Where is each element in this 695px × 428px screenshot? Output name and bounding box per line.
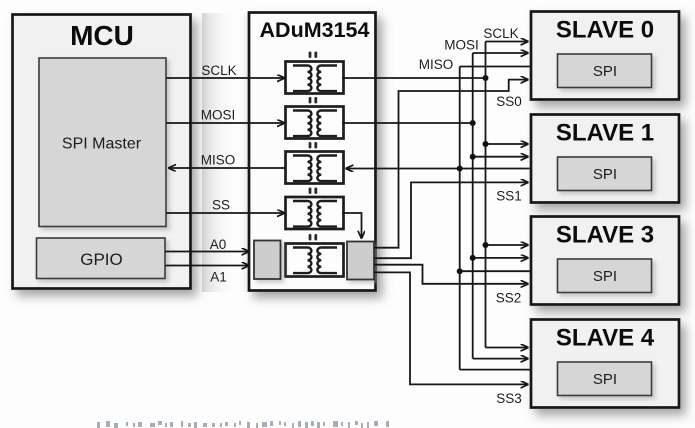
wire A0 (GPIO to latch) — [166, 237, 250, 252]
svg-text:A1: A1 — [210, 270, 227, 285]
isolation transformer channel 5 (decoder) — [286, 244, 344, 277]
junction SCLK/slave3 — [483, 242, 489, 248]
wire MOSI (MCU to channel 2) — [167, 108, 286, 124]
junction SCLK/slave1 — [483, 141, 489, 147]
wire MISO line (slave 1 to channel 3) — [346, 168, 530, 170]
SLAVE 4 block — [531, 320, 679, 408]
isolation transformer channel 1 (SCLK) — [286, 62, 344, 94]
SLAVE 1 block — [531, 115, 679, 203]
SS decoder (right gray box) — [347, 242, 374, 280]
wire MISO into slave 0 — [419, 57, 530, 72]
svg-text:SPI: SPI — [593, 166, 617, 183]
wire MOSI into slave 1 — [473, 156, 529, 158]
MCU block — [13, 15, 191, 289]
wire SCLK (MCU to channel 1) — [167, 63, 286, 78]
address input latch (left gray box) — [254, 241, 281, 280]
svg-text:SCLK: SCLK — [483, 26, 518, 41]
isolation barrier mark above channel 3 — [309, 142, 318, 149]
wire MOSI into slave 0 — [444, 38, 528, 54]
wire SS (MCU to channel 4) — [167, 198, 286, 214]
wire A1 (GPIO to latch) — [166, 266, 250, 285]
svg-text:SLAVE 4: SLAVE 4 — [556, 325, 655, 352]
junction MOSI/slave3 — [470, 255, 476, 261]
faint caption remnants at bottom edge — [97, 421, 389, 428]
isolation transformer channel 3 (MISO) — [286, 152, 344, 184]
wire SCLK into slave 1 — [486, 143, 529, 145]
svg-text:SS0: SS0 — [496, 94, 522, 109]
svg-text:SS3: SS3 — [496, 391, 522, 406]
junction MOSI/slave1 — [470, 154, 476, 160]
wire MISO (channel 3 to MCU) — [168, 153, 286, 169]
isolation barrier mark above channel 4 — [309, 188, 318, 195]
svg-text:MISO: MISO — [201, 153, 236, 168]
svg-text:A0: A0 — [210, 237, 227, 252]
MISO bus vertical — [459, 67, 461, 370]
MOSI bus vertical — [472, 53, 474, 359]
SLAVE 3 block — [531, 217, 679, 305]
svg-text:SPI: SPI — [593, 63, 617, 80]
GPIO block — [37, 238, 166, 279]
wire SCLK into slave 0 — [483, 26, 528, 42]
svg-text:SS2: SS2 — [496, 291, 522, 306]
isolation barrier mark above channel 1 — [309, 52, 318, 59]
wire SS0 (decoder to slave 0) — [374, 80, 529, 248]
svg-text:MOSI: MOSI — [201, 108, 236, 123]
wire MISO into slave 4 — [460, 369, 530, 371]
wire channel 1 output to SCLK bus — [342, 77, 486, 79]
ADuM3154 block U1 — [249, 13, 376, 291]
svg-text:MOSI: MOSI — [444, 38, 479, 53]
svg-text:SLAVE 1: SLAVE 1 — [556, 120, 654, 147]
wire SS1 (decoder to slave 1) — [374, 182, 529, 258]
SCLK bus vertical — [485, 42, 487, 348]
svg-text:GPIO: GPIO — [80, 250, 123, 269]
svg-text:SPI Master: SPI Master — [62, 136, 142, 153]
junction MISO/channel3 — [457, 166, 463, 172]
wire MISO into slave 3 — [460, 270, 530, 272]
wire SCLK into slave 3 — [486, 244, 529, 246]
isolation barrier mark above channel 2 — [309, 97, 318, 104]
isolation transformer channel 4 (SS) — [286, 197, 344, 229]
junction MISO/slave3 — [457, 268, 463, 274]
svg-text:SLAVE 0: SLAVE 0 — [556, 17, 654, 44]
wire SCLK into slave 4 — [486, 347, 529, 349]
junction SCLK/channel1 — [483, 75, 489, 81]
wire MOSI into slave 3 — [473, 257, 529, 259]
SPI Master block — [39, 58, 166, 227]
isolation transformer channel 2 (MOSI) — [286, 107, 344, 139]
wire channel 4 to SS decoder — [342, 213, 362, 239]
svg-text:SLAVE 3: SLAVE 3 — [556, 222, 654, 249]
svg-text:SCLK: SCLK — [201, 63, 236, 78]
svg-text:SS: SS — [212, 198, 230, 213]
wire SS3 (decoder to slave 4) — [374, 272, 529, 406]
svg-text:ADuM3154: ADuM3154 — [260, 18, 370, 42]
wire channel 2 output to MOSI bus — [342, 122, 473, 124]
svg-text:SS1: SS1 — [496, 189, 522, 204]
svg-text:SPI: SPI — [593, 371, 617, 388]
wire SS2 (decoder to slave 3) — [374, 265, 529, 306]
svg-text:SPI: SPI — [593, 268, 617, 285]
SLAVE 0 block — [531, 12, 679, 100]
wire MOSI into slave 4 — [473, 358, 529, 360]
isolation barrier mark above channel 5 — [309, 234, 318, 241]
soft shading in gap between MCU and ADuM — [202, 13, 249, 292]
svg-text:MCU: MCU — [70, 20, 134, 51]
svg-text:MISO: MISO — [419, 57, 454, 72]
junction MOSI/channel2 — [470, 120, 476, 126]
